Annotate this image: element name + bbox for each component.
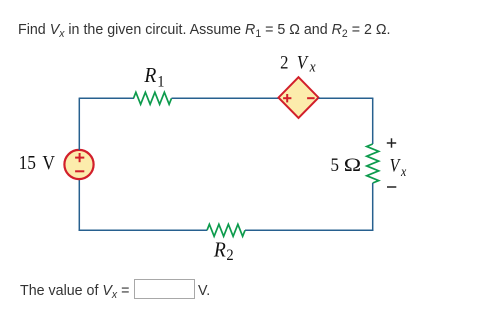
- svg-text:V: V: [42, 152, 55, 175]
- answer unit V.: [198, 283, 210, 298]
- resistor R2: [207, 224, 245, 236]
- answer input box: [134, 279, 195, 299]
- wire left lower segment: [78, 179, 80, 231]
- voltage source V1 (15V): [64, 150, 93, 179]
- label R1: [143, 64, 164, 90]
- resistor R3 (5 ohm): [367, 144, 379, 183]
- label 2 Vx: [280, 52, 316, 76]
- svg-text:5: 5: [331, 154, 339, 175]
- wire bottom-right segment: [245, 229, 373, 231]
- wire right lower segment: [372, 183, 374, 231]
- wire bottom-left segment: [79, 229, 207, 231]
- svg-text:2: 2: [280, 52, 288, 73]
- wire right upper segment: [372, 98, 374, 144]
- resistor R1: [134, 92, 172, 104]
- label - polarity bottom: [387, 186, 396, 188]
- label + polarity top: [387, 138, 396, 147]
- svg-text:R: R: [213, 239, 226, 262]
- label Vx: [390, 155, 407, 179]
- svg-text:15: 15: [19, 152, 36, 175]
- svg-text:R: R: [143, 64, 156, 87]
- svg-text:V: V: [297, 52, 309, 73]
- wire left upper segment: [78, 98, 80, 150]
- answer line: [20, 283, 129, 298]
- label R2: [213, 239, 234, 264]
- title text: [18, 22, 390, 37]
- wire top-right segment: [319, 97, 374, 99]
- svg-text:V: V: [390, 155, 402, 175]
- svg-text:1: 1: [157, 73, 164, 91]
- wire top-middle segment: [172, 97, 280, 99]
- label 5 ohm: [331, 154, 362, 176]
- svg-text:x: x: [400, 163, 406, 179]
- svg-text:Ω: Ω: [344, 154, 361, 176]
- dependent source U1 (2Vx diamond): [279, 77, 319, 118]
- svg-text:2: 2: [226, 246, 233, 264]
- wire top-left segment: [79, 97, 134, 99]
- label 15 V: [19, 152, 56, 175]
- svg-text:x: x: [309, 59, 317, 76]
